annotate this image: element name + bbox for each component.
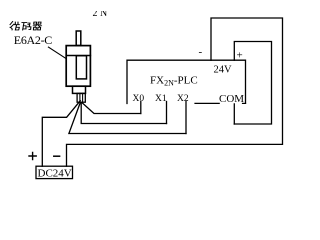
svg-text:X2: X2 xyxy=(177,94,189,104)
PLC bottom edge corner stub xyxy=(243,102,246,104)
svg-text:FX2N-PLC: FX2N-PLC xyxy=(150,75,198,88)
svg-text:X0: X0 xyxy=(133,94,145,104)
wire encoder A-phase to X0 xyxy=(82,103,141,114)
encoder cap line xyxy=(66,55,90,57)
pin divider 1 xyxy=(79,93,81,102)
wire + terminal loop to COM (inner loop) xyxy=(234,42,271,125)
encoder connector block xyxy=(73,86,86,93)
svg-text:24V: 24V xyxy=(214,65,233,76)
wire - terminal loop to DC24V minus (outer loop) xyxy=(67,18,283,166)
wire DC24V plus to encoder xyxy=(42,101,80,167)
svg-text:DC24V: DC24V xyxy=(38,168,72,180)
COM terminal tick xyxy=(233,104,235,124)
X1 terminal tick xyxy=(166,102,168,124)
PLC box (top, left, right edges; partial bottom) xyxy=(127,60,246,103)
pin divider 2 xyxy=(82,93,84,102)
svg-text:E6A2-C: E6A2-C xyxy=(14,33,52,47)
terminal - (DC24V) xyxy=(54,155,60,157)
leader line from label to encoder xyxy=(48,47,66,58)
encoder body xyxy=(66,46,90,87)
PLC bottom edge segment before COM xyxy=(195,102,219,104)
X2 terminal tick xyxy=(185,102,187,134)
terminal + (DC24V) xyxy=(29,152,36,159)
svg-text:2N: 2N xyxy=(93,8,110,19)
svg-text:+: + xyxy=(237,50,243,62)
wire encoder Z-phase to X2 xyxy=(69,103,186,134)
encoder inner rectangle xyxy=(76,56,86,79)
DC24V supply box xyxy=(36,166,73,178)
svg-text:X1: X1 xyxy=(155,94,167,104)
label 编码器 (encoder, CJK strokes) xyxy=(10,21,42,29)
encoder pin block xyxy=(77,93,85,102)
svg-text:COM: COM xyxy=(219,93,244,105)
X0 terminal tick xyxy=(140,102,142,114)
caption fragment 2N (clipped text at top) xyxy=(93,8,110,19)
wire encoder B-phase to X1 xyxy=(81,103,166,124)
encoder shaft xyxy=(76,31,81,46)
svg-text:-: - xyxy=(199,46,203,58)
